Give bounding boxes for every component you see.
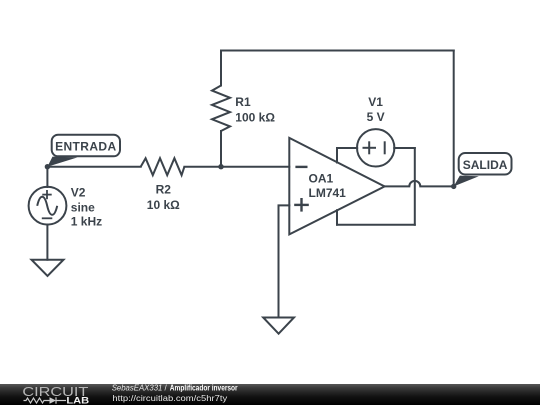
wire: op-amp output with hop over supply wire [385,181,454,187]
wire: R1 top lead [220,51,222,86]
wire: V1 left lead [337,147,357,149]
CircuitLab logo diode symbol [50,397,57,403]
svg-text:V1: V1 [368,95,383,109]
CircuitLab logo resistor-diode line [24,397,67,403]
wire: node A down to V2 [46,167,48,187]
wire: non-inverting input to ground [279,205,290,317]
resistor R2 [141,158,185,175]
ground below non-inverting input [263,318,294,334]
svg-text:LM741: LM741 [309,186,347,200]
svg-text:100 kΩ: 100 kΩ [235,110,275,124]
wire: bottom supply return [337,224,415,226]
wire: R2 to inverting input [184,166,289,168]
svg-text:10 kΩ: 10 kΩ [147,198,180,212]
wire: V1 right lead [394,147,415,149]
voltage source V1 (battery) [357,129,394,166]
svg-text:SALIDA: SALIDA [463,158,508,172]
svg-text:V2: V2 [71,185,86,199]
resistor R1 [212,86,230,132]
wire: op-amp V+ supply pin [336,148,338,163]
net flag SALIDA pointer [454,176,479,187]
wire: feedback top horizontal [221,50,454,52]
junction node output [451,184,456,189]
svg-text:1 kHz: 1 kHz [71,214,102,228]
wire: V2 to ground [46,225,48,260]
wire: op-amp V- supply pin [336,210,338,225]
svg-text:Amplificador inversor: Amplificador inversor [170,384,238,393]
net flag ENTRADA pointer [47,157,77,167]
svg-text:R2: R2 [156,183,172,197]
ground below V2 [32,260,64,276]
svg-text:SebasEAX331: SebasEAX331 [112,384,163,393]
junction node A (input) [45,164,50,169]
svg-text:LAB: LAB [66,396,89,405]
net flag SALIDA box [459,153,512,175]
wire: main input horizontal from node A to R2 [47,166,140,168]
svg-text:sine: sine [71,201,95,215]
svg-text:ENTRADA: ENTRADA [55,140,116,154]
junction node B (R1/R2 to inverting input) [218,164,223,169]
svg-text:5 V: 5 V [367,110,385,124]
footer bar [0,384,540,405]
wire: feedback right vertical [453,51,455,187]
op-amp OA1 [289,138,384,235]
wire: R1 bottom lead [220,131,222,167]
svg-text:R1: R1 [235,95,251,109]
wire: V1 right vertical down [414,148,416,225]
net flag ENTRADA box [52,135,120,157]
svg-text:http://circuitlab.com/c5hr7ty: http://circuitlab.com/c5hr7ty [112,394,227,403]
voltage source V2 (sine) [29,187,67,225]
svg-text:OA1: OA1 [309,172,334,186]
